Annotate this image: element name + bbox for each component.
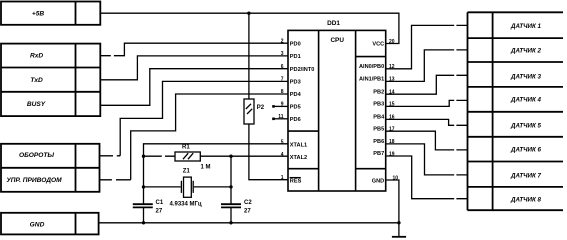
ground symbol [392,236,406,238]
node junction rail / crystal right [229,185,232,188]
svg-text:RES: RES [290,179,302,185]
svg-text:P2: P2 [257,105,265,111]
svg-text:TxD: TxD [30,77,43,84]
resistor R1 1M [144,144,211,170]
svg-text:Z1: Z1 [183,168,191,174]
resistor P2 (reset pull-up) [244,13,265,124]
node junction rail / crystal left [142,185,145,188]
node junction C2 / GND rail [229,221,232,224]
svg-text:BUSY: BUSY [27,101,46,108]
svg-text:AIN0/PB0: AIN0/PB0 [359,64,384,70]
wire pin 13 to sensor 2 [386,50,468,82]
node junction rail / R1 row [142,155,145,158]
wire pin 19 to sensor 8 [386,156,468,199]
svg-text:ОБОРОТЫ: ОБОРОТЫ [19,152,54,159]
IC DD1 right pin numbers [389,39,398,182]
svg-text:PD3: PD3 [290,80,301,86]
connector X2 RxD/TxD/BUSY box [1,44,100,117]
wire pin 18 to sensor 7 [386,144,468,175]
pin 9 stub PD5 [273,105,288,107]
svg-text:ДАТЧИК 4: ДАТЧИК 4 [510,97,541,104]
IC DD1 left pin name labels [290,41,315,184]
svg-text:PB5: PB5 [373,126,384,132]
svg-text:УПР. ПРИВОДОМ: УПР. ПРИВОДОМ [6,177,62,184]
wire pin 15 to sensor 4 [386,100,468,106]
wire XTAL1 rail [144,144,289,204]
wire УПР. ПРИВОДОМ to pin 8 [100,94,289,180]
svg-text:1 М: 1 М [201,165,211,171]
crystal Z1 [144,168,232,207]
IC DD1 right pin name labels [359,41,385,184]
svg-text:ДАТЧИК 8: ДАТЧИК 8 [510,196,541,203]
wire +5B rail to VCC [100,13,399,43]
svg-text:5: 5 [281,139,284,145]
wire GND rail [99,222,399,224]
wire pin 12 to sensor 1 [386,25,468,68]
wire R1 to XTAL2 pin 4 [200,155,288,157]
connector X4 GND box [1,213,99,235]
connector X1 +5B box [1,2,100,25]
svg-text:VCC: VCC [372,41,384,47]
svg-text:PB6: PB6 [373,139,384,145]
svg-text:PB7: PB7 [373,151,384,157]
svg-text:C2: C2 [244,200,252,206]
svg-text:XTAL1: XTAL1 [290,142,307,148]
svg-text:GND: GND [372,178,384,184]
svg-text:4.9334 МГц: 4.9334 МГц [170,201,202,207]
svg-text:ДАТЧИК 2: ДАТЧИК 2 [510,48,541,55]
svg-text:PB4: PB4 [373,115,385,121]
IC DD1 left pin numbers [278,38,284,181]
svg-text:PD2/INT0: PD2/INT0 [290,67,315,73]
svg-text:+5B: +5B [32,10,45,17]
svg-text:ДАТЧИК 3: ДАТЧИК 3 [510,73,541,80]
svg-text:AIN1/PB1: AIN1/PB1 [359,77,384,83]
wire RxD to pin 2 [100,43,288,56]
svg-text:27: 27 [156,209,163,215]
capacitor C2 27 [221,200,252,223]
wire ОБОРОТЫ to pin 7 [100,81,289,155]
svg-text:PD5: PD5 [290,105,301,111]
wire pin 16 to sensor 5 [386,119,468,125]
svg-text:PD0: PD0 [290,41,301,47]
svg-text:27: 27 [244,209,251,215]
svg-text:PD6: PD6 [290,117,301,123]
wire pin 14 to sensor 3 [386,75,468,94]
svg-text:PD4: PD4 [290,92,302,98]
svg-text:ДАТЧИК 6: ДАТЧИК 6 [510,147,541,154]
svg-text:PB2: PB2 [373,89,384,95]
wire CPU GND pin 10 to ground [386,180,399,237]
wire C2 rail [230,156,232,203]
svg-text:GND: GND [30,221,45,228]
svg-text:ДАТЧИК 5: ДАТЧИК 5 [510,123,541,130]
connector X5 sensor column boxes ДАТЧИК 1-8 [468,12,564,210]
svg-text:R1: R1 [182,144,190,150]
svg-text:RxD: RxD [30,53,43,60]
svg-text:C1: C1 [156,200,164,206]
wire BUSY to pin 6 [100,69,288,106]
capacitor C1 27 [133,200,164,223]
pin 11 stub PD6 [273,118,288,120]
node junction C1 / GND rail [142,221,145,224]
wire P2 to RES pin 1 [249,124,288,180]
svg-text:DD1: DD1 [327,20,340,27]
wire pin 17 to sensor 6 [386,131,468,150]
svg-text:PD1: PD1 [290,54,301,60]
wire TxD to pin 3 [100,56,288,80]
node junction XTAL2 / C2 rail [229,155,232,158]
connector X3 motor control box [1,144,100,192]
svg-text:CPU: CPU [330,37,344,44]
IC DD1 CPU body [288,20,386,191]
svg-text:PB3: PB3 [373,102,384,108]
svg-text:ДАТЧИК 1: ДАТЧИК 1 [510,23,541,30]
node junction +5B / R2 [247,12,250,15]
svg-text:ДАТЧИК 7: ДАТЧИК 7 [510,172,541,179]
svg-text:4: 4 [281,152,284,158]
svg-text:XTAL2: XTAL2 [290,155,307,161]
node junction GND rail / CPU GND drop [397,221,400,224]
